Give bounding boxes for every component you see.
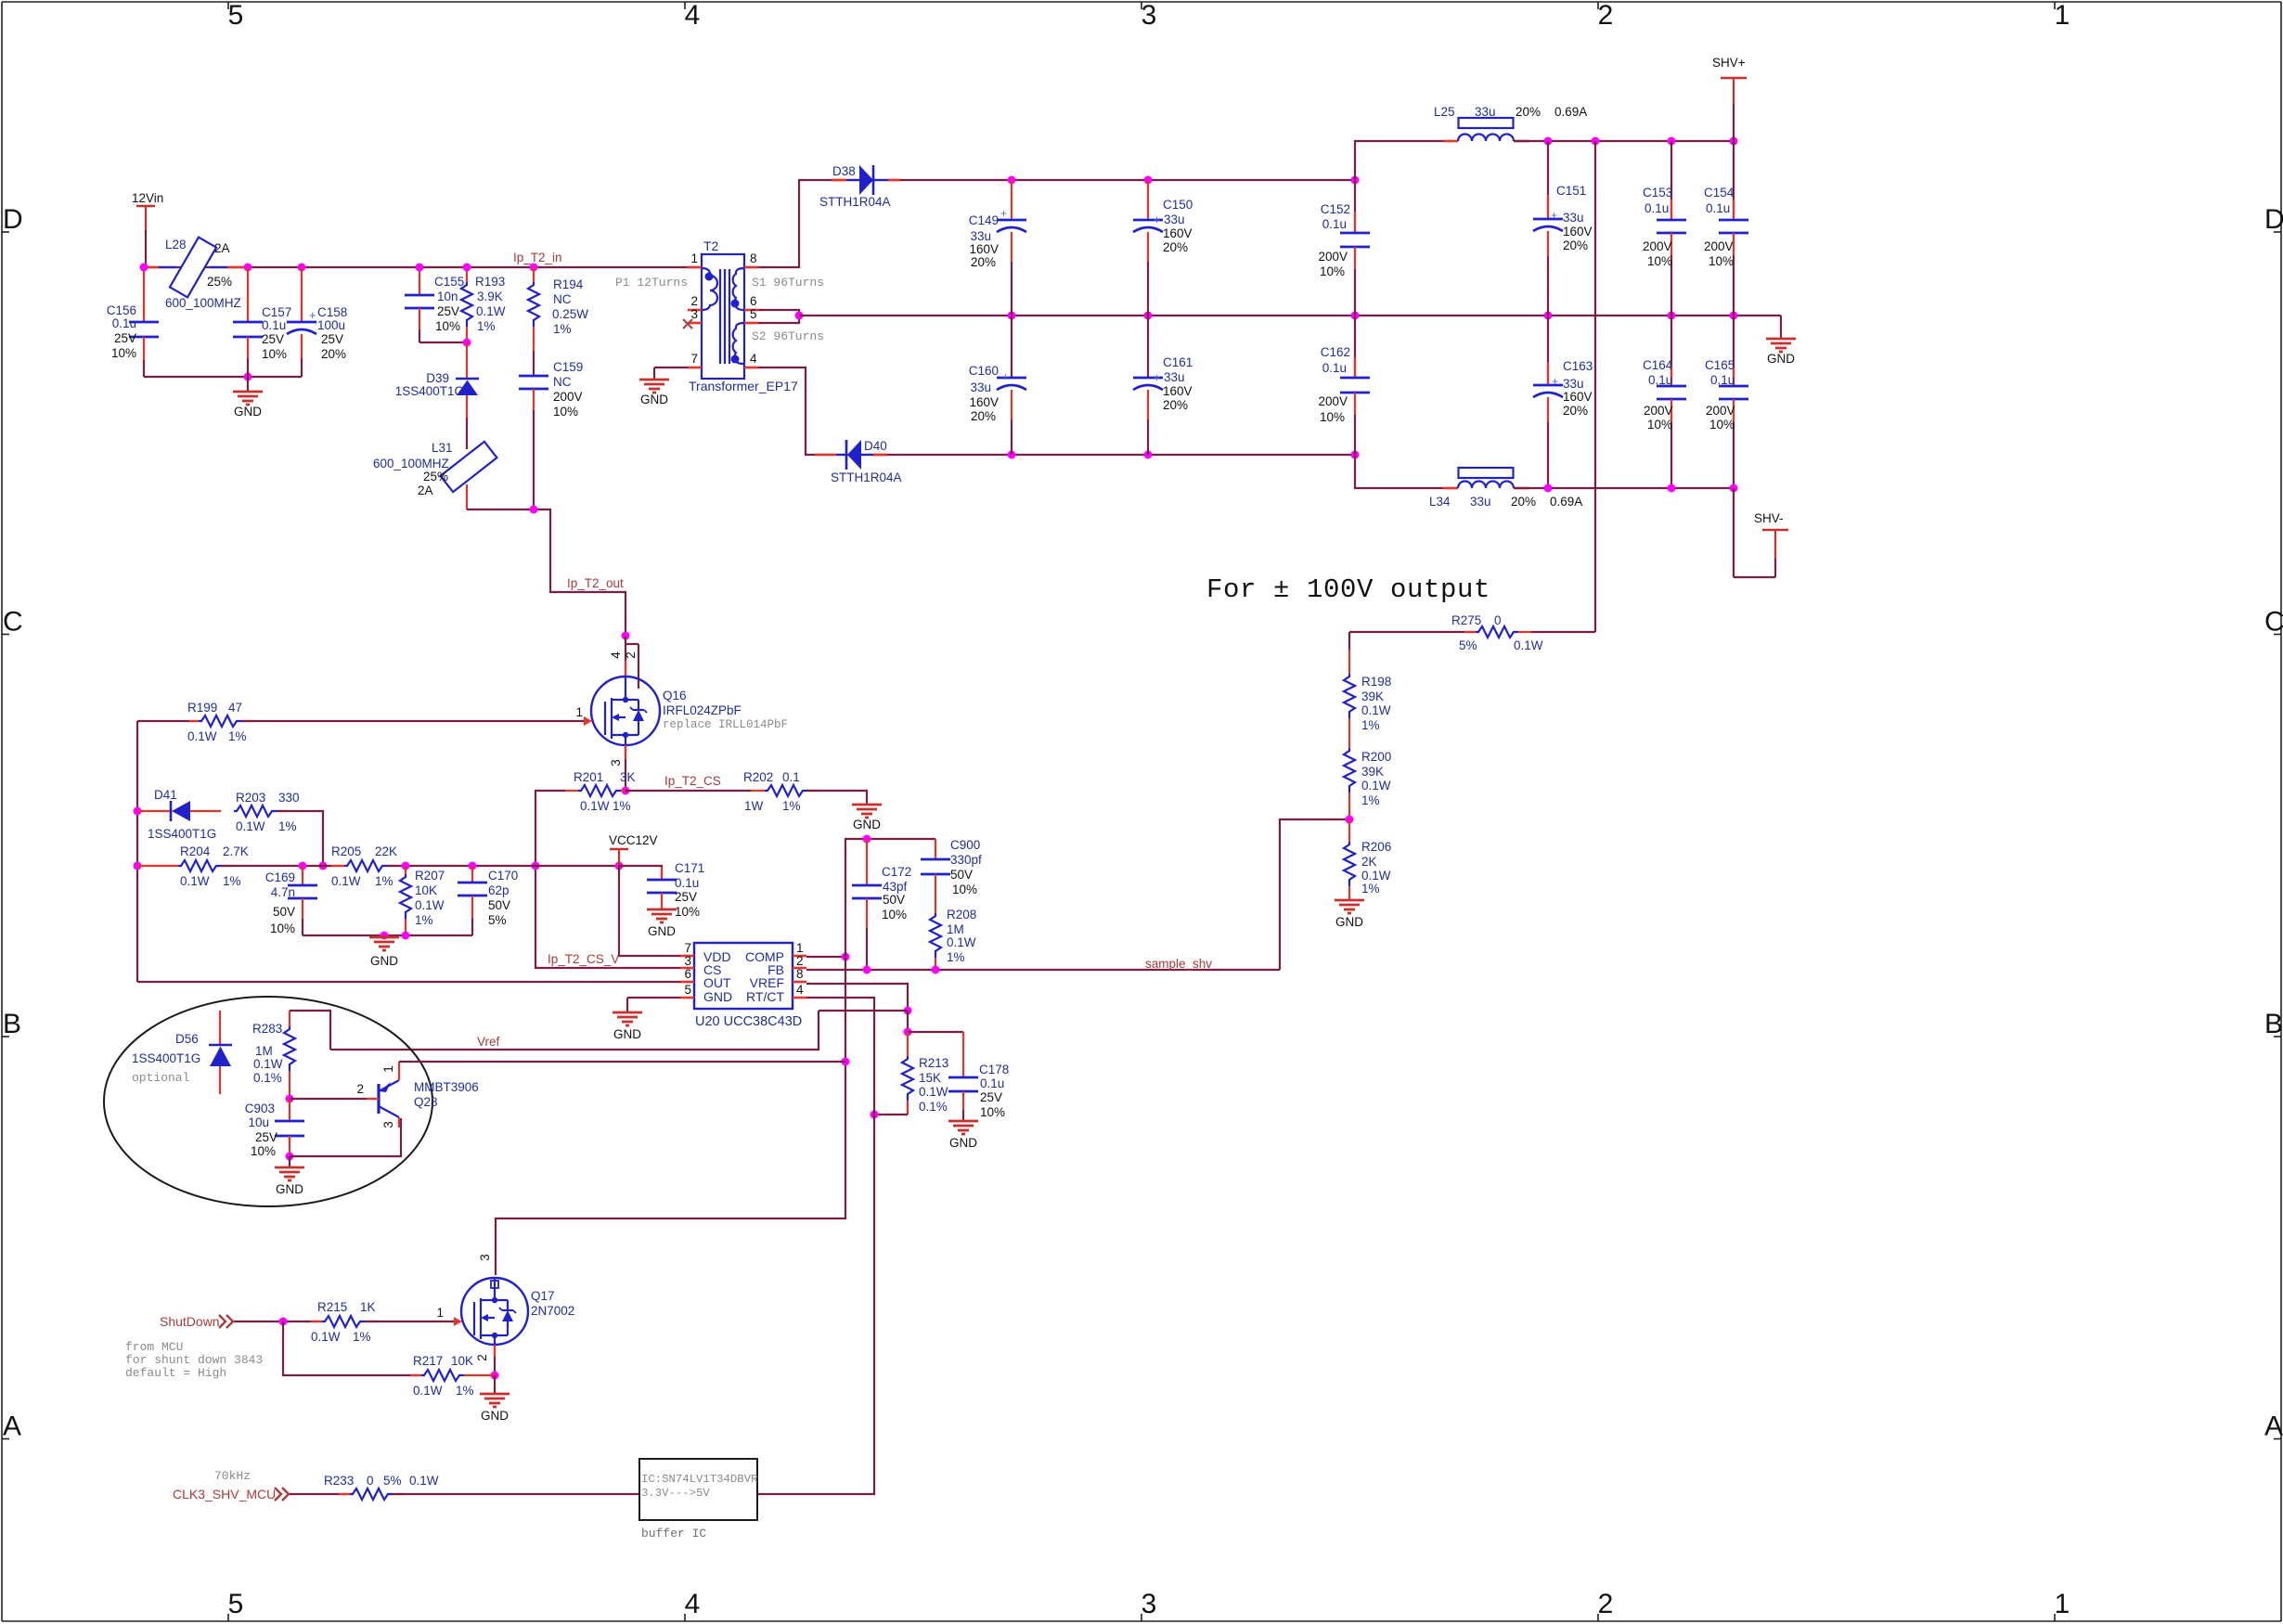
svg-text:200V: 200V <box>1318 394 1348 408</box>
svg-text:R206: R206 <box>1361 840 1391 854</box>
resistor R283 <box>252 1011 295 1099</box>
svg-text:3: 3 <box>1141 0 1157 31</box>
node secondary mid node <box>795 312 804 320</box>
svg-text:T2: T2 <box>703 238 719 253</box>
wire SHV+ sense vertical <box>1594 141 1596 632</box>
svg-text:Ip_T2_out: Ip_T2_out <box>567 576 624 590</box>
wire VREF down <box>907 1011 909 1032</box>
wire D40 rail down to L34 <box>1355 455 1443 488</box>
svg-text:1M: 1M <box>947 922 964 936</box>
svg-text:VREF: VREF <box>750 975 784 990</box>
svg-text:B: B <box>3 1009 21 1039</box>
svg-text:0.1u: 0.1u <box>1710 373 1735 387</box>
svg-text:0.1u: 0.1u <box>1645 201 1669 215</box>
wire Q16 source <box>625 745 626 791</box>
svg-text:0.1W: 0.1W <box>331 874 361 888</box>
svg-text:R283: R283 <box>252 1022 282 1036</box>
big note: For +/- 100V output <box>1206 574 1490 605</box>
svg-text:GND: GND <box>1335 915 1363 929</box>
svg-text:3: 3 <box>478 1254 492 1261</box>
wire to Q28 base <box>290 1098 379 1100</box>
wire D38 rail up to L25 <box>1355 141 1443 180</box>
wire COMP to C172/C900 rail <box>845 839 935 957</box>
svg-text:0.1u: 0.1u <box>1322 361 1347 375</box>
svg-text:20%: 20% <box>321 347 346 361</box>
wire R213 bottom <box>874 1114 908 1115</box>
svg-text:1%: 1% <box>1361 718 1380 732</box>
node 12V rail / C157 <box>244 264 252 272</box>
svg-text:25V: 25V <box>437 304 459 318</box>
wire T2 pin4 to D40 rail <box>758 367 1355 455</box>
svg-text:NC: NC <box>553 375 572 389</box>
resistor R203 <box>234 791 300 833</box>
ground GND (C171) <box>647 909 677 938</box>
svg-text:1%: 1% <box>278 819 297 833</box>
node 12V rail / C158 <box>298 264 306 272</box>
svg-text:buffer IC: buffer IC <box>641 1527 706 1540</box>
wire U20 COMP <box>806 956 845 958</box>
svg-text:GND: GND <box>276 1182 303 1196</box>
svg-text:22K: 22K <box>375 844 397 858</box>
svg-text:0.1W: 0.1W <box>1361 703 1391 717</box>
node mid rail / C152-C162 <box>1351 312 1360 320</box>
svg-text:C156: C156 <box>107 303 136 317</box>
wire VCC to U20 VDD <box>619 866 680 956</box>
node C172 top <box>863 835 871 844</box>
svg-text:0.1u: 0.1u <box>980 1076 1004 1090</box>
svg-text:D41: D41 <box>154 788 177 802</box>
svg-text:Ip_T2_in: Ip_T2_in <box>513 251 562 264</box>
resistor R275 <box>1349 613 1595 652</box>
wire SHV+ rail <box>1514 140 1734 142</box>
svg-text:R204: R204 <box>180 844 211 858</box>
svg-text:1%: 1% <box>1361 882 1380 896</box>
wire T2 pin5 to mid rail <box>758 316 799 323</box>
svg-text:0.25W: 0.25W <box>552 307 588 321</box>
resistor R198 <box>1344 632 1391 748</box>
svg-text:1%: 1% <box>1361 793 1380 807</box>
node D40 rail / C161 <box>1144 451 1153 459</box>
svg-text:GND: GND <box>703 989 732 1004</box>
svg-text:0.1W: 0.1W <box>409 1474 439 1488</box>
wire U20 RT/CT to buffer <box>757 998 874 1494</box>
svg-text:3: 3 <box>609 759 623 767</box>
node COMP node <box>842 953 850 961</box>
svg-text:GND: GND <box>640 393 668 406</box>
svg-text:1%: 1% <box>415 913 433 927</box>
svg-text:C162: C162 <box>1321 345 1350 359</box>
node 12V rail / C155 <box>416 264 424 272</box>
svg-text:0.1W: 0.1W <box>1361 779 1391 793</box>
ground GND (CS filter) <box>369 935 399 968</box>
svg-text:2: 2 <box>624 651 638 659</box>
svg-text:10%: 10% <box>111 346 136 360</box>
svg-text:L25: L25 <box>1434 105 1455 119</box>
wire U20 OUT to left vertical <box>137 981 680 983</box>
svg-text:5%: 5% <box>383 1474 402 1488</box>
diode D39 <box>395 342 479 418</box>
wire T2 pin6 to mid rail <box>758 310 799 316</box>
node SHV- rail / C163 <box>1544 484 1553 493</box>
wire U20 VREF <box>806 984 908 1011</box>
transistor Q16 <box>575 651 788 767</box>
svg-text:D: D <box>2264 204 2283 235</box>
svg-text:20%: 20% <box>1511 495 1536 509</box>
svg-text:0.69A: 0.69A <box>1550 495 1582 509</box>
node R193/D39 junction <box>463 339 471 347</box>
resistor R201 <box>565 770 636 813</box>
resistor R217 <box>410 1354 495 1398</box>
node D38 rail / C149 <box>1008 176 1016 185</box>
svg-text:6: 6 <box>684 967 691 981</box>
gray note optional <box>132 1071 190 1085</box>
wire SHV- rail <box>1514 487 1734 489</box>
svg-text:200V: 200V <box>1643 239 1672 253</box>
wire FB / sample_shv <box>806 969 1280 971</box>
node R283/C903/Q28 base node <box>286 1095 294 1103</box>
svg-text:Ip_T2_CS_V: Ip_T2_CS_V <box>548 952 619 966</box>
node VREF node <box>904 1007 912 1015</box>
node left vertical / R204 <box>134 862 142 870</box>
node RT/CT / R213 node <box>871 1111 879 1119</box>
wire R203 to R205 node <box>277 811 323 866</box>
svg-text:33u: 33u <box>1563 377 1584 391</box>
svg-text:STTH1R04A: STTH1R04A <box>831 470 902 484</box>
capacitor C149 (polarized) <box>969 180 1026 316</box>
svg-text:1%: 1% <box>782 799 801 813</box>
svg-text:10%: 10% <box>1320 264 1345 278</box>
svg-text:1: 1 <box>796 941 804 955</box>
wire ShutDown input <box>234 1321 322 1322</box>
svg-text:1: 1 <box>575 705 583 719</box>
wire Q28 emitter to COMP net <box>399 1061 845 1063</box>
svg-text:0.1W: 0.1W <box>311 1330 341 1344</box>
svg-text:200V: 200V <box>1644 404 1673 418</box>
net label Ip_T2_CS <box>664 774 721 788</box>
svg-text:2K: 2K <box>1361 855 1377 869</box>
svg-text:1%: 1% <box>228 729 247 743</box>
svg-text:R233: R233 <box>324 1474 354 1488</box>
wire R204 to R205 <box>221 865 344 867</box>
svg-text:20%: 20% <box>971 255 996 269</box>
ground GND (T2 pin7) <box>639 367 688 406</box>
svg-text:20%: 20% <box>1163 240 1188 254</box>
svg-text:4.7n: 4.7n <box>271 885 295 899</box>
svg-text:5: 5 <box>228 0 244 31</box>
node Q16 drain node <box>622 632 630 640</box>
svg-text:50V: 50V <box>488 898 510 912</box>
svg-text:L34: L34 <box>1429 495 1451 509</box>
node Q16 source / Ip_T2_CS <box>622 787 630 795</box>
svg-text:C154: C154 <box>1704 186 1735 200</box>
svg-text:+: + <box>1002 370 1009 383</box>
svg-text:D39: D39 <box>426 371 449 385</box>
node L31/C159 junction <box>530 506 538 514</box>
power flag VCC12V <box>609 833 658 866</box>
svg-text:0.1W: 0.1W <box>947 935 976 949</box>
net label Vref <box>477 1035 500 1049</box>
svg-text:7: 7 <box>690 352 698 366</box>
wire R202 to GND <box>807 791 867 805</box>
svg-text:2: 2 <box>1598 1589 1614 1619</box>
inductor L31 <box>373 418 497 509</box>
svg-text:default = High: default = High <box>125 1366 226 1380</box>
wire R215 to Q17 gate <box>365 1321 454 1322</box>
inductor L34 <box>1429 468 1582 509</box>
gray note S2 96Turns <box>752 329 824 343</box>
svg-text:20%: 20% <box>1163 398 1188 412</box>
svg-text:from MCU: from MCU <box>125 1340 183 1354</box>
svg-text:200V: 200V <box>1706 404 1735 418</box>
svg-text:R201: R201 <box>574 770 603 784</box>
svg-text:12Vin: 12Vin <box>132 191 163 205</box>
svg-text:+: + <box>1154 371 1160 384</box>
svg-text:0.1u: 0.1u <box>675 876 699 890</box>
svg-text:0.1W: 0.1W <box>919 1085 948 1099</box>
svg-text:0.1u: 0.1u <box>112 316 136 330</box>
svg-text:1: 1 <box>690 251 698 265</box>
svg-text:33u: 33u <box>1563 211 1584 225</box>
capacitor C165 <box>1705 316 1748 488</box>
svg-text:1%: 1% <box>223 874 241 888</box>
svg-text:For ± 100V output: For ± 100V output <box>1206 574 1490 605</box>
svg-text:10%: 10% <box>270 922 295 935</box>
wire CS filter ground bus <box>303 934 472 936</box>
svg-text:R202: R202 <box>743 770 773 784</box>
wire Ip_T2_CS_V net <box>535 791 680 968</box>
svg-text:50V: 50V <box>950 868 973 882</box>
gray note from MCU <box>125 1340 263 1380</box>
svg-text:20%: 20% <box>1563 404 1588 418</box>
svg-text:0.1W: 0.1W <box>476 304 506 318</box>
svg-text:R199: R199 <box>187 701 217 715</box>
node gnd tap <box>380 932 389 940</box>
svg-text:+: + <box>1552 375 1558 388</box>
node C903 bottom node <box>286 1153 294 1161</box>
svg-text:0.1u: 0.1u <box>1322 217 1347 231</box>
node mid rail / C153-C164 <box>1668 312 1676 320</box>
transformer T2 <box>688 238 798 393</box>
svg-text:R205: R205 <box>331 844 361 858</box>
svg-text:ShutDown: ShutDown <box>160 1314 220 1329</box>
svg-text:25V: 25V <box>114 331 136 345</box>
svg-text:0.1W: 0.1W <box>180 874 210 888</box>
no-connect X on T2 pin 3 <box>683 319 692 329</box>
resistor R200 <box>1344 748 1391 819</box>
svg-text:SHV-: SHV- <box>1754 511 1784 525</box>
capacitor C172 <box>852 839 911 970</box>
svg-text:1%: 1% <box>553 322 572 336</box>
node COMP / Q28 emitter node <box>842 1058 850 1066</box>
node mid rail / C154-C165 <box>1730 312 1738 320</box>
svg-text:IC:SN74LV1T34DBVR: IC:SN74LV1T34DBVR <box>641 1473 758 1486</box>
ground GND (R202) <box>852 805 882 831</box>
gray note P1 12Turns <box>615 276 688 290</box>
svg-text:1: 1 <box>2055 1589 2070 1619</box>
svg-text:600_100MHZ: 600_100MHZ <box>373 457 449 470</box>
svg-text:0.1W: 0.1W <box>580 799 610 813</box>
wire 12Vin to rail <box>145 230 147 267</box>
capacitor C159 <box>519 360 583 509</box>
svg-text:R207: R207 <box>415 869 445 883</box>
svg-text:6: 6 <box>750 294 757 308</box>
svg-text:C149: C149 <box>969 213 999 227</box>
svg-text:0.1u: 0.1u <box>1706 201 1730 215</box>
svg-text:10%: 10% <box>882 908 907 922</box>
wire VCC to C171 <box>619 866 662 880</box>
svg-text:R198: R198 <box>1361 675 1391 689</box>
node ShutDown / R217 node <box>279 1318 288 1326</box>
node mid rail / C149-C160 <box>1008 312 1016 320</box>
wire Q28 collector return <box>290 1118 401 1156</box>
net label Ip_T2_in <box>513 251 562 264</box>
svg-text:25V: 25V <box>255 1130 277 1144</box>
node SHV- rail / C164 <box>1668 484 1676 493</box>
svg-text:25V: 25V <box>675 890 697 904</box>
svg-text:C169: C169 <box>265 870 295 884</box>
svg-text:0.69A: 0.69A <box>1554 105 1587 119</box>
net label Ip_T2_CS_V <box>548 952 619 966</box>
svg-text:C178: C178 <box>979 1063 1009 1076</box>
svg-text:4: 4 <box>685 1589 701 1619</box>
svg-text:50V: 50V <box>883 893 905 907</box>
svg-text:B: B <box>2264 1009 2283 1039</box>
resistor R215 <box>311 1300 376 1344</box>
svg-text:Vref: Vref <box>477 1035 500 1049</box>
svg-text:C171: C171 <box>675 861 704 875</box>
ellipse optional circuit outline <box>104 997 432 1206</box>
node SHV+ rail / C154 <box>1730 137 1738 146</box>
svg-text:7: 7 <box>684 941 691 955</box>
svg-text:25V: 25V <box>980 1090 1002 1104</box>
capacitor C151 (polarized) <box>1533 141 1593 316</box>
svg-text:STTH1R04A: STTH1R04A <box>819 195 891 209</box>
svg-text:+: + <box>1000 207 1007 220</box>
svg-text:0.1W: 0.1W <box>1514 638 1543 652</box>
svg-text:GND: GND <box>234 405 262 419</box>
svg-text:10%: 10% <box>952 883 977 896</box>
svg-text:10%: 10% <box>262 347 287 361</box>
svg-text:1SS400T1G: 1SS400T1G <box>132 1051 200 1065</box>
svg-text:1%: 1% <box>375 874 393 888</box>
svg-text:5%: 5% <box>1459 638 1477 652</box>
svg-text:GND: GND <box>853 818 881 831</box>
net label sample_shv <box>1145 957 1212 971</box>
svg-text:D: D <box>3 204 23 235</box>
svg-text:3.9K: 3.9K <box>477 290 503 303</box>
svg-text:10n: 10n <box>437 290 458 303</box>
svg-text:sample_shv: sample_shv <box>1145 957 1212 971</box>
svg-text:2A: 2A <box>418 483 433 497</box>
svg-text:C: C <box>2264 607 2283 638</box>
node SHV- rail / C165 <box>1730 484 1738 493</box>
svg-text:20%: 20% <box>1563 238 1588 252</box>
node C169 tap <box>299 862 307 870</box>
wire Vref to ellipse <box>330 1011 819 1050</box>
ground GND (Q17) <box>480 1375 509 1423</box>
svg-text:4: 4 <box>685 0 701 31</box>
svg-text:1%: 1% <box>477 319 496 333</box>
node D38 rail / C150 <box>1144 176 1153 185</box>
wire R199 to Q16 gate <box>241 720 584 722</box>
svg-text:D56: D56 <box>175 1032 199 1046</box>
node VCC12V node <box>615 862 624 870</box>
resistor R213 <box>902 1032 948 1115</box>
node CS filter node <box>532 862 540 870</box>
svg-text:1SS400T1G: 1SS400T1G <box>395 384 464 398</box>
diode D40 <box>815 439 902 484</box>
svg-text:10K: 10K <box>415 883 437 897</box>
svg-text:C163: C163 <box>1563 359 1593 373</box>
gray note 70kHz <box>214 1469 251 1483</box>
svg-text:2: 2 <box>475 1354 489 1361</box>
resistor R204 <box>137 844 249 888</box>
svg-text:L28: L28 <box>165 238 187 251</box>
svg-text:D40: D40 <box>864 439 887 453</box>
svg-text:GND: GND <box>949 1136 977 1150</box>
svg-text:NC: NC <box>553 292 572 306</box>
svg-text:50V: 50V <box>273 905 295 919</box>
net label ShutDown <box>160 1314 233 1329</box>
svg-text:15K: 15K <box>919 1071 941 1085</box>
svg-text:C: C <box>3 607 23 638</box>
node 12V rail / C156 <box>140 264 148 272</box>
svg-text:C164: C164 <box>1643 358 1673 372</box>
capacitor C170 <box>458 866 518 935</box>
node mid rail / C151-C163 <box>1544 312 1553 320</box>
node 12V rail / R193 <box>463 264 471 272</box>
svg-text:0.1W: 0.1W <box>415 898 445 912</box>
net label Ip_T2_out <box>567 576 624 590</box>
ground GND (U20 pin5) <box>613 998 680 1041</box>
wire secondary mid rail <box>799 315 1781 316</box>
capacitor C153 <box>1643 141 1686 316</box>
svg-text:1: 1 <box>436 1306 444 1320</box>
svg-text:10%: 10% <box>251 1144 276 1158</box>
svg-text:8: 8 <box>796 967 804 981</box>
svg-text:0.1W: 0.1W <box>187 729 217 743</box>
svg-text:P1 12Turns: P1 12Turns <box>615 276 688 290</box>
svg-text:1%: 1% <box>947 950 965 964</box>
svg-text:1: 1 <box>381 1065 395 1073</box>
svg-text:160V: 160V <box>1163 384 1193 398</box>
svg-text:CLK3_SHV_MCU: CLK3_SHV_MCU <box>173 1487 276 1502</box>
capacitor C156 <box>107 267 159 377</box>
node Q17 source node <box>491 1372 499 1380</box>
node SHV+ rail / C153 <box>1668 137 1676 146</box>
svg-text:10%: 10% <box>1647 418 1672 432</box>
inductor L25 <box>1434 105 1587 141</box>
svg-text:R193: R193 <box>475 275 505 289</box>
svg-text:1M: 1M <box>255 1044 273 1058</box>
svg-text:3: 3 <box>1141 1589 1157 1619</box>
gray note S1 96Turns <box>752 276 824 290</box>
capacitor C154 <box>1704 141 1748 316</box>
svg-text:C155: C155 <box>434 275 464 289</box>
capacitor C158 (polarized) <box>287 267 347 377</box>
svg-text:1W: 1W <box>744 799 764 813</box>
svg-text:C165: C165 <box>1705 358 1735 372</box>
svg-text:R215: R215 <box>317 1300 347 1314</box>
svg-text:200V: 200V <box>553 390 583 404</box>
node 12V rail / R194 <box>530 264 538 272</box>
wire to C178 <box>908 1031 963 1033</box>
power flag SHV+ <box>1712 56 1747 141</box>
resistor R202 <box>743 770 820 813</box>
svg-text:3: 3 <box>381 1121 395 1128</box>
svg-text:0.1W: 0.1W <box>236 819 265 833</box>
svg-text:5: 5 <box>684 983 691 997</box>
